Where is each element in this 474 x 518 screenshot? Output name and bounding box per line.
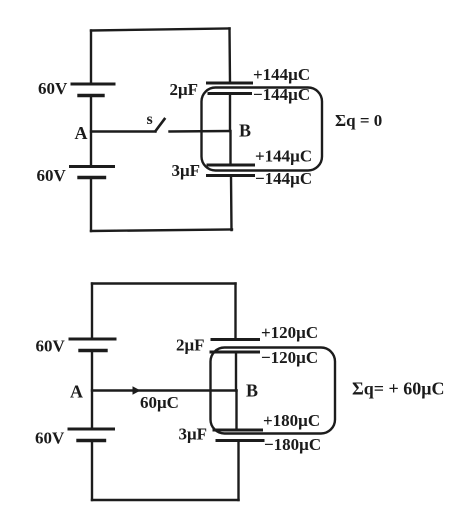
svg-text:−144μC: −144μC <box>255 169 312 188</box>
capacitor C3 2uF plates <box>211 340 259 353</box>
svg-text:60μC: 60μC <box>140 393 179 412</box>
wire: V3 to V4 through node A <box>91 351 93 430</box>
wire: node B to C2 top plate <box>229 131 231 165</box>
switch S blade <box>156 119 165 131</box>
svg-text:Σq= + 60μC: Σq= + 60μC <box>352 379 445 399</box>
wire: node A to node B (bottom circuit) <box>92 389 237 391</box>
wire: V1 to V2 through node A <box>90 96 92 167</box>
svg-text:−120μC: −120μC <box>261 348 318 367</box>
wire: bottom circuit right side down to C3 <box>234 284 236 340</box>
wire: C4 bottom plate to bottom wire <box>237 441 239 501</box>
wire: node B to C4 top plate <box>235 391 237 431</box>
Gaussian surface loop (top circuit) <box>202 88 323 171</box>
current arrow head on A-B wire <box>133 386 141 395</box>
svg-text:60V: 60V <box>36 337 66 356</box>
wire: top circuit left side upper <box>90 31 92 85</box>
battery V3 60V <box>70 339 115 351</box>
svg-text:60V: 60V <box>37 166 67 185</box>
svg-text:−144μC: −144μC <box>253 85 310 104</box>
svg-text:3μF: 3μF <box>179 425 208 444</box>
battery V1 60V <box>72 84 114 96</box>
svg-text:Σq = 0: Σq = 0 <box>335 111 382 130</box>
svg-text:s: s <box>147 111 153 128</box>
capacitor C4 3uF plates <box>214 430 263 441</box>
svg-text:3μF: 3μF <box>172 161 201 180</box>
svg-text:2μF: 2μF <box>176 336 205 355</box>
wire: bottom circuit bottom side <box>92 499 239 501</box>
wire: V4 to bottom-left corner <box>91 441 93 501</box>
svg-text:B: B <box>239 121 251 141</box>
battery V2 60V <box>71 167 114 178</box>
wire: top circuit bottom side <box>91 230 232 232</box>
capacitor C2 3uF plates <box>208 165 254 176</box>
svg-text:−180μC: −180μC <box>264 435 321 454</box>
capacitor C1 2uF plates <box>208 83 252 94</box>
wire: bottom circuit top side <box>92 282 236 284</box>
svg-text:A: A <box>75 123 88 143</box>
Gaussian surface loop (bottom circuit) <box>211 348 336 434</box>
wire: node A to switch <box>91 130 156 132</box>
wire: top circuit top side <box>91 29 230 31</box>
wire: V2 to bottom-left corner <box>90 178 92 232</box>
wire: switch to node B <box>170 130 231 133</box>
wire: C2 bottom plate to bottom wire <box>230 176 233 231</box>
svg-text:A: A <box>70 382 83 402</box>
svg-text:B: B <box>246 381 258 401</box>
wire: C1 bottom plate to node B <box>229 94 231 132</box>
svg-text:+120μC: +120μC <box>261 323 318 342</box>
svg-text:60V: 60V <box>35 429 65 448</box>
wire: bottom circuit left side upper <box>91 284 93 340</box>
battery V4 60V <box>69 429 114 441</box>
svg-text:+180μC: +180μC <box>263 411 320 430</box>
svg-text:2μF: 2μF <box>170 80 199 99</box>
svg-text:60V: 60V <box>38 79 68 98</box>
wire: top circuit right side down to C1 <box>228 29 231 84</box>
wire: C3 bottom plate to node B <box>235 352 237 391</box>
svg-text:+144μC: +144μC <box>255 147 312 166</box>
svg-text:+144μC: +144μC <box>253 65 310 84</box>
